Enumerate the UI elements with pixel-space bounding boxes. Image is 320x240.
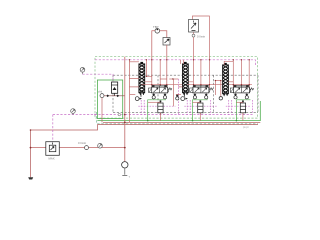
svg-text:0 l/min: 0 l/min: [197, 34, 206, 38]
svg-text:ps pt: ps pt: [243, 126, 249, 129]
svg-text:0 l/min: 0 l/min: [78, 141, 87, 145]
svg-text:TBP: TBP: [153, 25, 159, 29]
svg-text:chk: chk: [98, 90, 103, 94]
svg-text:MAX: MAX: [49, 157, 55, 161]
